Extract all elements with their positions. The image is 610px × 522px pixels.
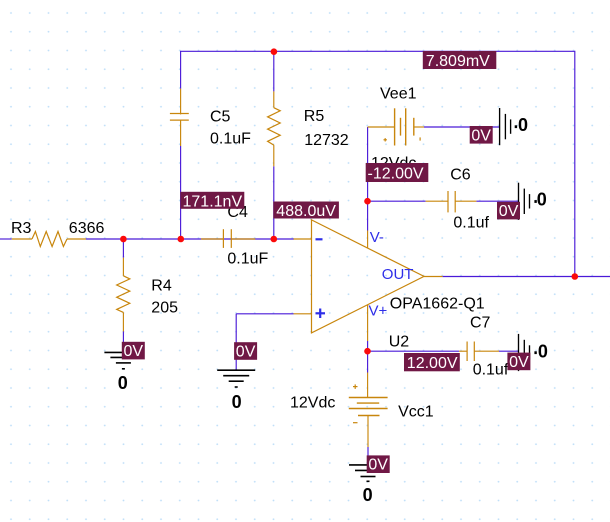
svg-text:0: 0 xyxy=(537,190,547,210)
svg-text:R3: R3 xyxy=(11,220,32,237)
svg-text:0V: 0V xyxy=(509,354,529,371)
svg-text:C7: C7 xyxy=(470,315,491,332)
svg-text:6366: 6366 xyxy=(69,220,105,237)
svg-text:C6: C6 xyxy=(450,166,471,183)
svg-text:OUT: OUT xyxy=(382,266,414,283)
svg-text:7.809mV: 7.809mV xyxy=(426,53,490,70)
svg-text:-12.00V: -12.00V xyxy=(368,166,424,183)
svg-text:V-: V- xyxy=(370,229,384,246)
svg-text:Vcc1: Vcc1 xyxy=(398,404,434,421)
svg-text:OPA1662-Q1: OPA1662-Q1 xyxy=(390,295,485,312)
svg-text:0.1uF: 0.1uF xyxy=(210,131,251,148)
svg-text:0V: 0V xyxy=(124,343,144,360)
svg-text:0V: 0V xyxy=(236,344,256,361)
svg-text:Vee1: Vee1 xyxy=(380,85,417,102)
svg-text:0: 0 xyxy=(118,373,128,393)
svg-text:0V: 0V xyxy=(499,203,519,220)
svg-text:488.0uV: 488.0uV xyxy=(276,203,336,220)
svg-text:R5: R5 xyxy=(304,108,325,125)
svg-text:12.00V: 12.00V xyxy=(407,355,458,372)
svg-text:0: 0 xyxy=(363,485,373,505)
svg-text:12Vdc: 12Vdc xyxy=(290,395,335,412)
svg-text:0.1uF: 0.1uF xyxy=(227,250,268,267)
svg-text:0: 0 xyxy=(232,392,242,412)
svg-text:0: 0 xyxy=(538,341,548,361)
svg-text:0.1uf: 0.1uf xyxy=(473,362,509,379)
svg-text:0.1uf: 0.1uf xyxy=(453,215,489,232)
svg-text:0V: 0V xyxy=(471,127,491,144)
svg-text:U2: U2 xyxy=(389,333,410,350)
svg-text:171.1nV: 171.1nV xyxy=(183,193,243,210)
svg-text:0V: 0V xyxy=(368,457,388,474)
svg-text:R4: R4 xyxy=(151,277,172,294)
svg-text:V+: V+ xyxy=(369,303,388,320)
svg-text:C5: C5 xyxy=(210,108,231,125)
svg-text:0: 0 xyxy=(518,115,528,135)
svg-text:205: 205 xyxy=(151,299,178,316)
svg-text:12732: 12732 xyxy=(304,132,349,149)
